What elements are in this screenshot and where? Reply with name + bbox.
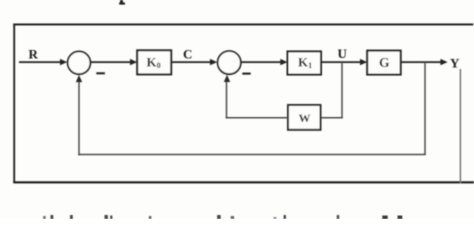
svg-text:U: U	[338, 46, 348, 61]
figure frame top border	[13, 24, 473, 26]
block K0	[137, 50, 171, 74]
arrowhead into summing junction S1	[60, 59, 67, 65]
svg-text:Y: Y	[450, 55, 460, 70]
svg-text:G: G	[379, 55, 390, 70]
svg-text:W: W	[299, 111, 311, 125]
svg-text:R: R	[29, 47, 39, 62]
arrowhead up into S2 bottom	[224, 75, 230, 82]
wire K0 to S2	[171, 61, 211, 63]
arrowhead to output Y	[440, 59, 447, 65]
summing junction S1	[68, 51, 91, 74]
figure frame left border	[13, 24, 15, 184]
minus sign at S2	[242, 73, 250, 75]
wire W left to corner	[226, 117, 288, 119]
arrowhead into block K1	[280, 59, 287, 65]
wire corner up to S2	[226, 79, 228, 118]
wire output junction down (outer feedback)	[424, 62, 426, 154]
wire outer feedback up to S1	[78, 79, 80, 155]
wire outer feedback bottom run	[78, 154, 426, 156]
block W	[288, 105, 321, 130]
figure frame bottom border	[13, 181, 474, 183]
arrowhead into summing junction S2	[210, 59, 217, 65]
wire S1 to Ka	[91, 61, 132, 63]
block K1	[288, 51, 322, 74]
minus sign at S1	[96, 72, 105, 74]
arrowhead up into S1 bottom	[76, 75, 82, 82]
wire K1 to G	[321, 61, 362, 63]
block G	[367, 51, 401, 75]
figure frame right border (partial)	[460, 69, 461, 183]
svg-text:C: C	[183, 47, 192, 62]
wire U junction down to W row	[341, 62, 343, 118]
wire G to Y	[401, 61, 442, 63]
wire R input	[19, 61, 62, 63]
fragments of following text line (bottom, cut off)	[43, 215, 402, 219]
wire into W right side	[321, 117, 343, 119]
arrowhead into block K0	[130, 59, 137, 65]
summing junction S2	[218, 51, 241, 74]
fragment of previous text line (top, cut off)	[119, 0, 125, 5]
arrowhead into block G	[360, 59, 367, 65]
wire S2 to K1	[241, 61, 282, 63]
